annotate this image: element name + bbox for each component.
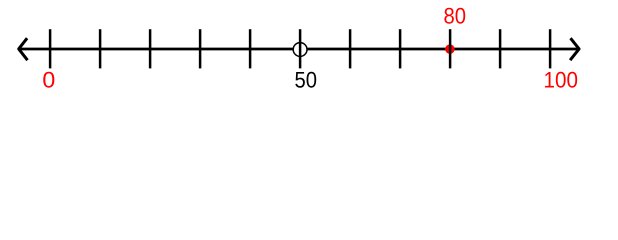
tick at 10 bbox=[99, 29, 102, 68]
red point at 80 bbox=[445, 44, 455, 54]
svg-text:50: 50 bbox=[295, 68, 318, 93]
tick at 40 bbox=[249, 29, 252, 68]
tick at 70 bbox=[399, 29, 402, 68]
svg-text:100: 100 bbox=[544, 68, 578, 93]
tick at 50 bbox=[299, 29, 302, 68]
tick at 60 bbox=[349, 29, 352, 68]
tick at 80 bbox=[449, 29, 452, 68]
tick at 0 bbox=[49, 29, 52, 68]
svg-text:80: 80 bbox=[444, 4, 467, 29]
tick at 90 bbox=[499, 29, 502, 68]
open circle at 50 bbox=[293, 43, 307, 57]
tick at 20 bbox=[149, 29, 152, 68]
tick at 30 bbox=[199, 29, 202, 68]
right arrowhead bbox=[570, 38, 579, 60]
svg-text:0: 0 bbox=[42, 68, 55, 93]
left arrowhead bbox=[19, 38, 28, 60]
tick at 100 bbox=[549, 29, 552, 68]
number line axis bbox=[18, 48, 580, 51]
